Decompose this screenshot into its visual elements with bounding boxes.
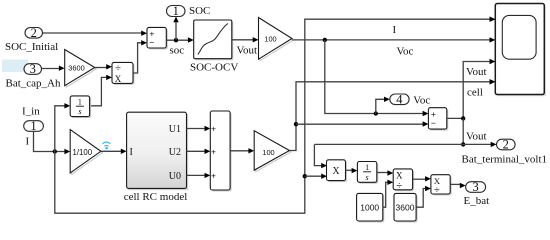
svg-text:Voc: Voc (413, 95, 430, 107)
wire sum out to SOC-OCV with soc node (166, 39, 188, 41)
inport 3 Bat_cap_Ah (24, 62, 42, 76)
wire divide2 to outport 3 (450, 183, 460, 185)
wire gain 1/100 to cell RC model (101, 150, 121, 152)
svg-text:÷: ÷ (396, 179, 402, 191)
svg-text:3600: 3600 (396, 203, 415, 213)
svg-text:1: 1 (30, 119, 36, 133)
product X (P = V x I) (327, 160, 348, 182)
wire 1000 to divide1 (383, 182, 388, 207)
wire sum to gain 100 (230, 150, 249, 152)
outport 2 Bat_terminal_volt1 (497, 138, 516, 152)
wire junction to product X bottom input (305, 175, 322, 177)
svg-text:Voc: Voc (397, 46, 414, 58)
svg-text:I: I (393, 24, 397, 36)
wire 3600 to divide2 (416, 189, 426, 208)
svg-text:soc: soc (170, 45, 185, 57)
junction Voc (323, 38, 327, 42)
svg-text:X: X (115, 74, 122, 84)
wire integrator1 to divide x input (90, 77, 107, 105)
Vout rail to outport 2 (314, 143, 491, 145)
constant 1000 (357, 193, 385, 222)
wire gain3600 to divide (95, 67, 107, 69)
junction RC drop (294, 122, 298, 126)
scope (495, 4, 546, 97)
svg-text:4: 4 (396, 93, 403, 107)
svg-text:s: s (366, 173, 369, 182)
wire product to integrator2 (345, 169, 352, 171)
svg-text:SOC-OCV: SOC-OCV (190, 62, 238, 74)
inport 1 I_in (24, 119, 44, 133)
wire rail down to product X top input (314, 144, 321, 165)
svg-text:I_in: I_in (22, 105, 40, 117)
svg-text:1/100: 1/100 (73, 148, 93, 157)
wire U1 to sum (187, 128, 206, 130)
svg-text:+: + (211, 124, 216, 134)
wire U2 to sum (187, 150, 206, 152)
svg-text:100: 100 (264, 34, 276, 43)
wire divide1 to divide2 (413, 178, 426, 180)
junction Voc tap (374, 111, 378, 115)
junction I tap (303, 174, 307, 178)
svg-text:3600: 3600 (68, 63, 84, 72)
wire Voc to scope input 2 (292, 39, 490, 41)
svg-text:+: + (211, 170, 216, 180)
wire port2 to sum (43, 32, 142, 34)
svg-text:cell RC model: cell RC model (124, 191, 188, 203)
wire port3 to gain (42, 68, 60, 70)
integrator 1/s (energy) (357, 162, 378, 184)
inport 2 SOC_Initial (25, 26, 43, 40)
cell RC model subsystem (127, 112, 189, 190)
svg-text:+: + (211, 146, 216, 156)
wire subtract out to scope input 3 (Vout) (447, 62, 490, 119)
svg-text:2: 2 (503, 138, 509, 152)
gain 100 (RC drop) (254, 131, 291, 172)
constant 3600 (394, 193, 418, 222)
bottom rail I to product and scope input 1 (55, 19, 490, 213)
svg-text:I: I (130, 147, 133, 158)
svg-text:1: 1 (78, 97, 82, 106)
wire integrator2 to divide1 (377, 172, 388, 174)
svg-text:2: 2 (31, 26, 37, 40)
svg-text:SOC_Initial: SOC_Initial (5, 41, 58, 53)
svg-text:3: 3 (30, 62, 36, 76)
svg-text:1: 1 (365, 163, 369, 172)
gain 1/100 (70, 130, 102, 175)
wire Voc junction down to subtract plus input (325, 40, 423, 114)
junction Vout upper (461, 116, 465, 120)
wire I_in down and right to gain 1/100 (34, 131, 65, 151)
gain 3600 (65, 50, 97, 88)
svg-text:1: 1 (173, 4, 179, 18)
svg-text:Vout: Vout (466, 66, 487, 78)
svg-text:3: 3 (472, 180, 478, 194)
svg-text:1000: 1000 (360, 203, 379, 213)
highlight patch (2, 60, 28, 73)
wire junction to subtract minus input (296, 123, 423, 125)
svg-text:U2: U2 (169, 147, 181, 158)
svg-text:÷: ÷ (434, 185, 440, 196)
scope input arrows (490, 17, 496, 22)
divide by 3600 block (431, 175, 452, 197)
svg-text:SOC: SOC (189, 5, 210, 17)
wire I junction up to integrator1 (55, 106, 65, 152)
svg-text:÷: ÷ (115, 62, 121, 74)
svg-text:Bat_cap_Ah: Bat_cap_Ah (6, 78, 61, 90)
junction Vout rail (461, 142, 465, 146)
SOC-OCV lookup block (194, 20, 234, 60)
wire SOC-OCV to gain100 (232, 39, 253, 41)
wire U0 to sum (187, 174, 206, 176)
wire divide to sum input 2 (133, 43, 142, 73)
wire Vout down to rail (462, 118, 464, 144)
divide block (SOC denominator) (112, 62, 135, 85)
junction I (53, 149, 57, 153)
wire to outport 4 (376, 99, 385, 113)
svg-text:X: X (332, 166, 340, 177)
sum block U1+U2+U0 (210, 111, 231, 192)
svg-text:Vout: Vout (466, 131, 487, 143)
integrator 1/s (charge) (70, 96, 91, 118)
outport 4 Voc (390, 93, 409, 107)
junction soc (174, 38, 178, 42)
gain 100 (Voc) (259, 18, 294, 61)
wire gain100 up to scope input 4 (cell) (290, 82, 490, 151)
svg-text:cell: cell (467, 86, 483, 98)
svg-text:I: I (26, 136, 30, 148)
svg-text:100: 100 (262, 148, 274, 157)
svg-text:U0: U0 (169, 171, 181, 182)
svg-text:Vout: Vout (237, 44, 258, 56)
svg-text:−: − (149, 37, 154, 47)
svg-text:−: − (431, 118, 436, 128)
outport 3 E_bat (466, 180, 486, 194)
subtract block Voc minus drop (428, 108, 448, 131)
wire soc to outport 1 (175, 21, 177, 40)
logging badge (103, 142, 111, 146)
divide by 1000 block (393, 169, 414, 192)
sum block SOC (147, 27, 168, 49)
svg-text:E_bat: E_bat (464, 195, 490, 207)
svg-text:U1: U1 (169, 124, 181, 135)
outport 1 SOC (167, 4, 186, 18)
svg-text:Bat_terminal_volt1: Bat_terminal_volt1 (462, 153, 548, 165)
svg-text:s: s (78, 107, 81, 116)
